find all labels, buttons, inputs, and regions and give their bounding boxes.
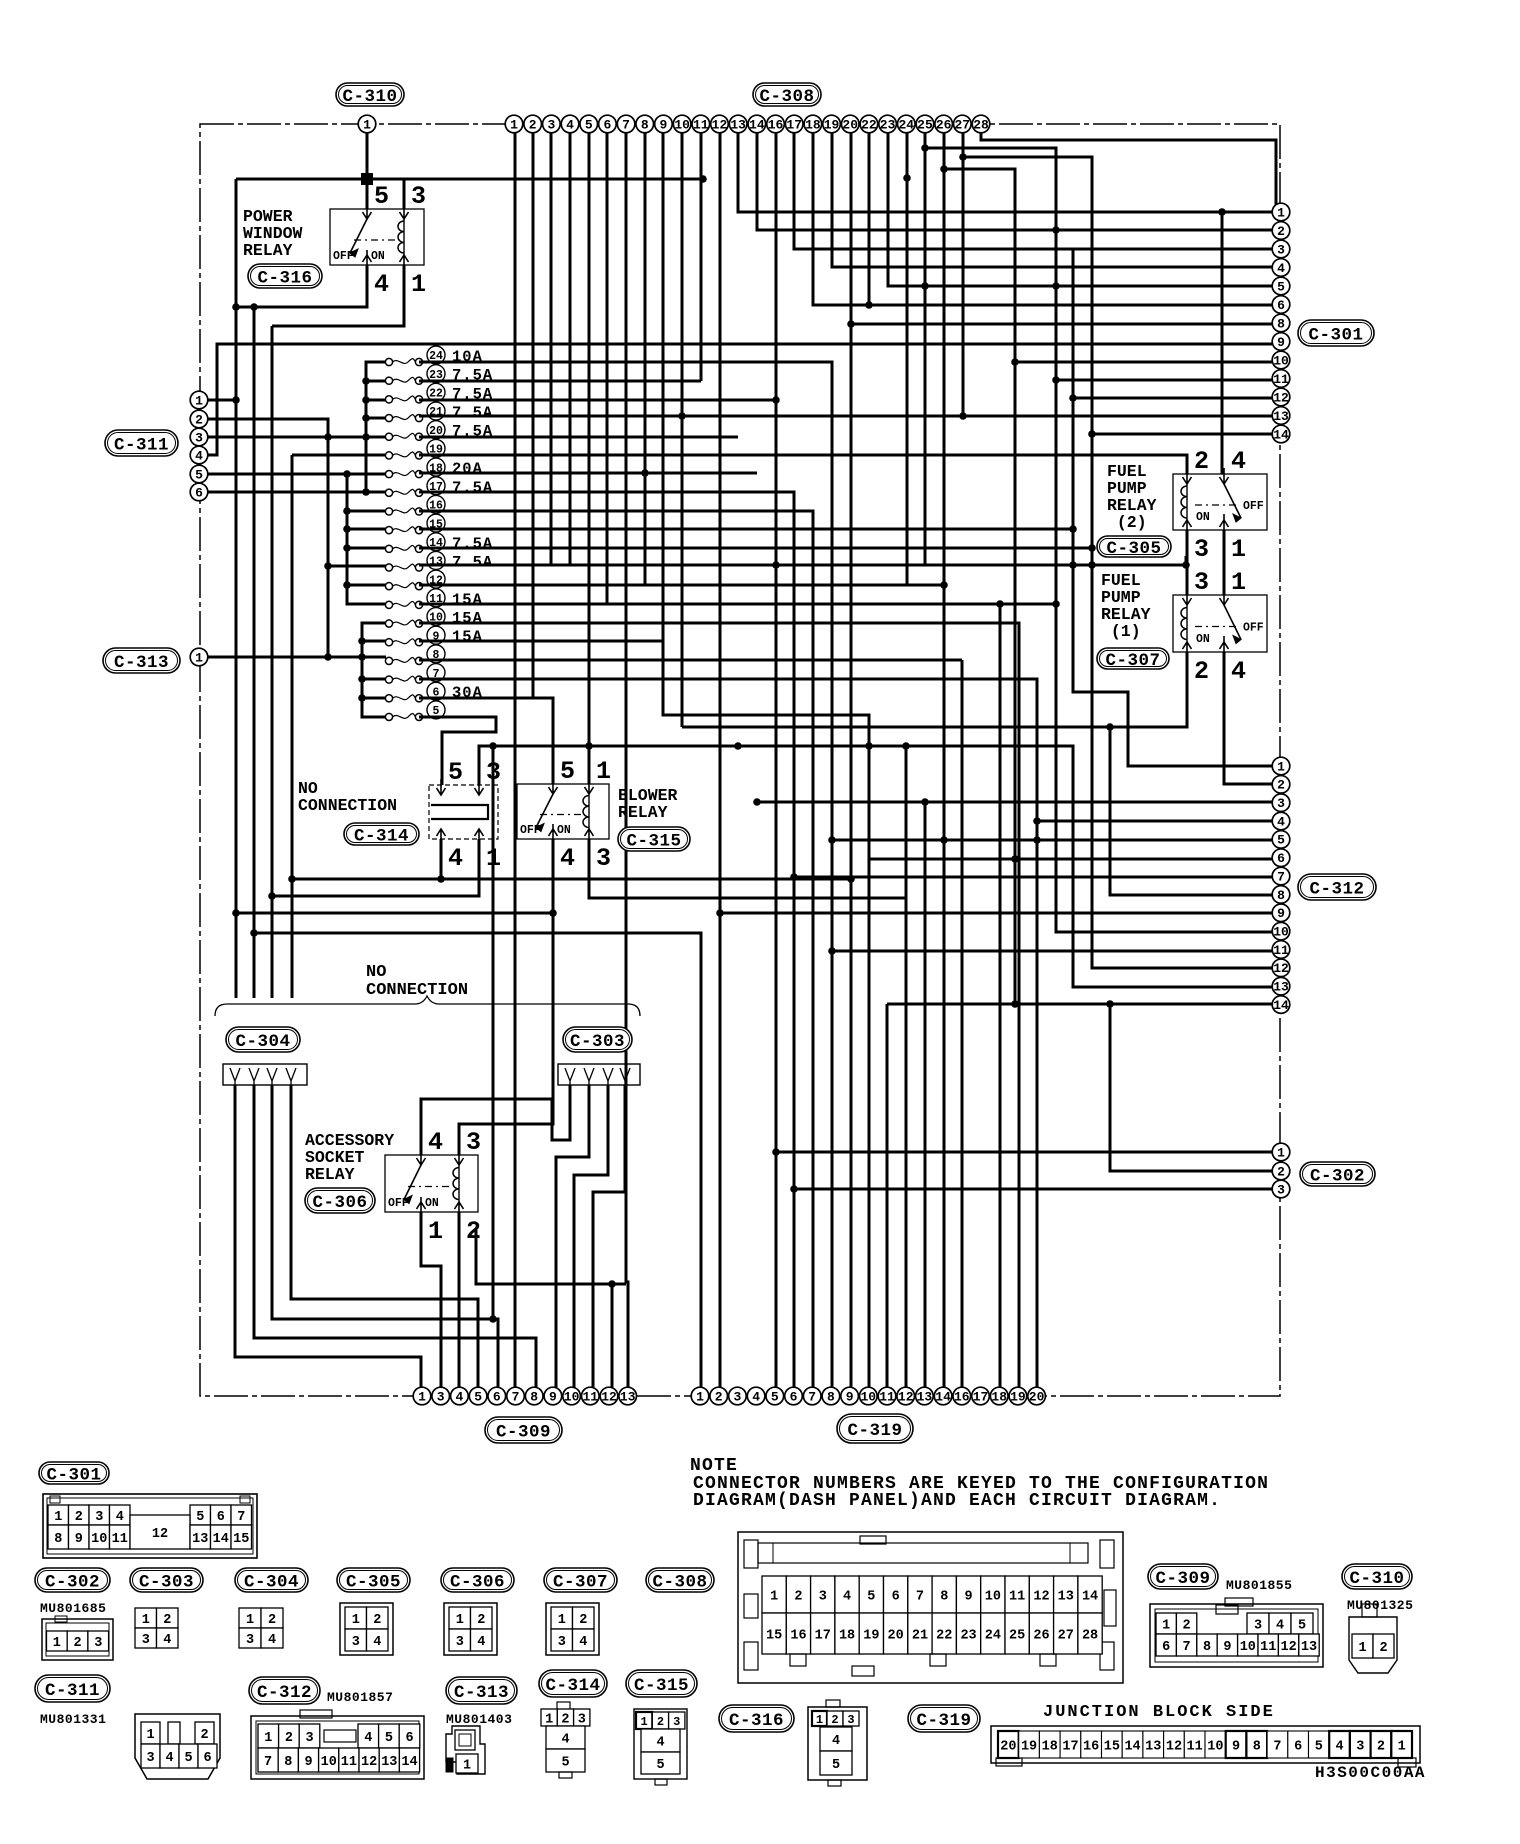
- connector C-307 pin table: [546, 1603, 599, 1655]
- svg-text:2: 2: [477, 1613, 485, 1628]
- svg-text:4: 4: [1231, 657, 1246, 686]
- svg-text:3: 3: [819, 1589, 827, 1604]
- svg-text:15: 15: [766, 1628, 782, 1643]
- wire bus2 stub: [347, 510, 386, 513]
- junction (869,746): [865, 742, 873, 750]
- wire fuse15 out: [419, 528, 1073, 531]
- wire fuse10 out to C-319 19: [419, 623, 1019, 1388]
- svg-text:10: 10: [860, 1389, 876, 1404]
- svg-text:7: 7: [1277, 869, 1285, 884]
- svg-text:12: 12: [1166, 1739, 1182, 1754]
- terminal C-308 top pin 27: [954, 115, 972, 133]
- svg-text:8: 8: [54, 1532, 62, 1547]
- wire bus D to C-319 1: [254, 933, 701, 1388]
- wire PW pin1 route: [272, 265, 404, 326]
- wire top12 to C-319 2: [719, 132, 722, 1388]
- fuse 12: [385, 570, 445, 590]
- svg-text:15A: 15A: [452, 628, 483, 646]
- svg-text:11: 11: [112, 1532, 128, 1547]
- svg-text:3: 3: [578, 1712, 586, 1727]
- svg-text:19: 19: [824, 117, 840, 132]
- svg-text:14: 14: [213, 1532, 229, 1547]
- terminal C-312 pin 3: [1272, 794, 1290, 812]
- terminal C-301 pin 2: [1272, 222, 1290, 240]
- wire C-312 14 line: [887, 1003, 1278, 1006]
- svg-text:23: 23: [880, 117, 896, 132]
- svg-text:14: 14: [1273, 427, 1289, 442]
- wire C-311 5 fuse18 feed: [199, 473, 386, 476]
- capsule C-304 table: [235, 1568, 308, 1592]
- junction (1110,727): [1106, 723, 1114, 731]
- svg-text:13: 13: [1058, 1589, 1074, 1604]
- wire top1 to C-309 7: [514, 132, 517, 1388]
- svg-text:11: 11: [1260, 1640, 1276, 1655]
- wire top5 to blower pin1: [588, 132, 591, 784]
- svg-text:1: 1: [411, 270, 426, 299]
- wire bus2 stub: [347, 584, 386, 587]
- svg-text:7: 7: [808, 1389, 816, 1404]
- terminal C-308 top pin 1: [505, 115, 523, 133]
- svg-text:2: 2: [75, 1510, 83, 1525]
- svg-text:1: 1: [510, 117, 518, 132]
- wire fuse16 out chain to C-319 7: [419, 511, 813, 1388]
- junction block side strip: [991, 1726, 1420, 1767]
- terminal C-319 pin 3: [729, 1387, 747, 1405]
- terminal C-319 pin 10: [860, 1387, 878, 1405]
- svg-text:4: 4: [1276, 1618, 1284, 1633]
- svg-text:C-314: C-314: [545, 1676, 600, 1696]
- svg-text:6: 6: [603, 117, 611, 132]
- svg-text:2: 2: [200, 1728, 208, 1743]
- terminal C-319 pin 9: [841, 1387, 859, 1405]
- wire top10: [681, 132, 684, 727]
- svg-text:3: 3: [195, 430, 203, 445]
- svg-text:1: 1: [456, 1613, 464, 1628]
- wire top27 deep vertical: [962, 157, 965, 416]
- svg-text:1: 1: [53, 1636, 61, 1651]
- wire C-311 6 fuse17 feed: [199, 491, 386, 494]
- svg-text:3: 3: [596, 844, 611, 873]
- fuse 9: [385, 626, 483, 646]
- wire C-305 pin4 feed: [1221, 211, 1224, 474]
- wire fuse13 feed: [328, 565, 386, 568]
- wire C-301 10: [1015, 361, 1278, 364]
- wire C-319 18 vertical: [1018, 623, 1021, 1388]
- wire fuse18 out: [419, 472, 757, 475]
- connector C-316 pin table: [808, 1700, 867, 1786]
- svg-text:15A: 15A: [452, 610, 483, 628]
- wire C-311 4 chain to C-301 9: [199, 344, 1278, 455]
- wire bus1 stub: [366, 436, 386, 439]
- junction (493,746): [489, 742, 497, 750]
- svg-text:C-313: C-313: [454, 1683, 509, 1703]
- capsule C-307 table: [544, 1568, 617, 1592]
- svg-text:5: 5: [1315, 1739, 1323, 1754]
- wire C-301 13 long fuse21: [419, 415, 1278, 418]
- svg-text:MU801685: MU801685: [40, 1601, 106, 1616]
- svg-text:C-302: C-302: [1310, 1166, 1365, 1186]
- svg-text:MU801855: MU801855: [1226, 1578, 1292, 1593]
- svg-text:9: 9: [964, 1589, 972, 1604]
- fuse 21: [385, 402, 493, 422]
- terminal C-319 pin 5: [766, 1387, 784, 1405]
- svg-text:11: 11: [879, 1389, 895, 1404]
- connector C-304 pin table: [239, 1608, 283, 1648]
- svg-text:C-302: C-302: [45, 1572, 100, 1592]
- terminal C-308 top pin 10: [673, 115, 691, 133]
- terminal C-308 top pin 2: [524, 115, 542, 133]
- junction (493,1319): [489, 1315, 497, 1323]
- terminal C-309 pin 5: [469, 1387, 487, 1405]
- wire C-314 pin3 feed line746 to C-312 13: [479, 746, 1278, 987]
- svg-text:12: 12: [1280, 1640, 1296, 1655]
- svg-text:5: 5: [585, 117, 593, 132]
- svg-text:9: 9: [660, 117, 668, 132]
- svg-text:2: 2: [1277, 778, 1285, 793]
- svg-text:3: 3: [95, 1510, 103, 1525]
- terminal C-301 pin 1: [1272, 203, 1290, 221]
- svg-text:14: 14: [1273, 998, 1289, 1013]
- svg-text:3: 3: [305, 1731, 313, 1746]
- svg-text:14: 14: [935, 1389, 951, 1404]
- junction (907,178): [903, 174, 911, 182]
- wire fuse9 out chain to C-319 10: [419, 641, 869, 1388]
- svg-text:13: 13: [192, 1532, 208, 1547]
- fuse 19: [385, 439, 445, 459]
- svg-text:2: 2: [579, 1613, 587, 1628]
- wire C-319 11 vertical: [886, 1004, 889, 1388]
- wire top4: [569, 132, 572, 565]
- svg-text:10: 10: [1273, 353, 1289, 368]
- svg-text:5: 5: [1277, 833, 1285, 848]
- svg-text:C-315: C-315: [626, 831, 681, 851]
- svg-text:C-301: C-301: [1308, 325, 1363, 345]
- terminal C-319 pin 2: [710, 1387, 728, 1405]
- svg-text:7.5A: 7.5A: [452, 479, 493, 497]
- svg-text:16: 16: [1083, 1739, 1099, 1754]
- svg-text:3: 3: [146, 1751, 154, 1766]
- wire C-311 2 chain: [199, 419, 328, 657]
- wire top9: [662, 132, 665, 641]
- terminal C-309 pin 3: [432, 1387, 450, 1405]
- svg-text:3: 3: [437, 1389, 445, 1404]
- terminal C-312 pin 8: [1272, 886, 1290, 904]
- svg-text:1: 1: [816, 1713, 823, 1727]
- svg-text:1: 1: [264, 1731, 272, 1746]
- svg-text:25: 25: [917, 117, 933, 132]
- connector C-309 pin table: [1150, 1598, 1323, 1667]
- svg-text:6: 6: [405, 1731, 413, 1746]
- svg-text:13: 13: [730, 117, 746, 132]
- svg-text:14: 14: [749, 117, 765, 132]
- junction (1056,604): [1052, 600, 1060, 608]
- svg-text:2: 2: [1277, 1164, 1285, 1179]
- wire bus3 stub: [362, 697, 386, 700]
- wire C-304 pin3 chain to C-309 6: [272, 1085, 498, 1388]
- capsule C-316: [248, 264, 322, 288]
- connector C-311 pin table: [135, 1714, 220, 1779]
- wire top11: [700, 132, 703, 381]
- terminal C-319 pin 20: [1028, 1387, 1046, 1405]
- svg-text:MU801325: MU801325: [1347, 1598, 1413, 1613]
- wire fuse8 out: [419, 659, 962, 662]
- connector C-306 pin table: [444, 1603, 497, 1655]
- wire fuse bus1: [366, 362, 386, 492]
- svg-text:2: 2: [794, 1589, 802, 1604]
- capsule C-319 table: [908, 1705, 980, 1732]
- junction (328,437): [324, 433, 332, 441]
- svg-text:C-314: C-314: [354, 826, 409, 846]
- wire v272 bundle: [271, 326, 274, 998]
- wire bus B to C-314 pin1: [272, 839, 479, 896]
- terminal C-319 pin 19: [1009, 1387, 1027, 1405]
- junction (366,492): [362, 488, 370, 496]
- svg-text:5: 5: [196, 1510, 204, 1525]
- wire C-309 13 line: [476, 1230, 626, 1284]
- svg-text:20: 20: [1000, 1739, 1016, 1754]
- terminal C-312 pin 14: [1272, 996, 1290, 1014]
- junction (1015,1004): [1011, 1000, 1019, 1008]
- svg-text:C-307: C-307: [1105, 651, 1160, 671]
- junction (553,913): [549, 909, 557, 917]
- capsule C-303 table: [130, 1568, 203, 1592]
- junction (236,307): [232, 303, 240, 311]
- junction (272,896): [268, 892, 276, 900]
- terminal C-311 pin 4: [190, 446, 208, 464]
- fuse 15: [385, 514, 445, 534]
- connector C-312 pin table: [251, 1710, 424, 1779]
- svg-text:C-304: C-304: [244, 1572, 299, 1592]
- svg-text:3: 3: [1277, 796, 1285, 811]
- svg-text:3: 3: [456, 1635, 464, 1650]
- svg-text:ON: ON: [371, 250, 385, 263]
- terminal C-312 pin 10: [1272, 922, 1290, 940]
- connector C-302 pin table: [42, 1616, 113, 1660]
- svg-text:13: 13: [429, 556, 443, 569]
- wire top13 to C-301 1: [738, 132, 1278, 212]
- wire C-319 16 vertical: [961, 660, 964, 1388]
- wire fuse12 out: [419, 584, 944, 587]
- wire v236 bundle: [235, 179, 238, 998]
- terminal C-312 pin 6: [1272, 849, 1290, 867]
- wire C-310 pin1 to relay pin5: [366, 132, 369, 209]
- junction (328,657): [324, 653, 332, 661]
- terminal C-319 pin 11: [878, 1387, 896, 1405]
- svg-text:1: 1: [1277, 1145, 1285, 1160]
- junction (1056,230): [1052, 226, 1060, 234]
- junction (851,324): [847, 320, 855, 328]
- terminal C-311 pin 6: [190, 483, 208, 501]
- svg-text:1: 1: [1277, 205, 1285, 220]
- svg-text:1: 1: [1162, 1618, 1170, 1633]
- svg-text:26: 26: [1033, 1628, 1049, 1643]
- junction (589,746): [585, 742, 593, 750]
- svg-text:8: 8: [827, 1389, 835, 1404]
- svg-text:C-312: C-312: [1309, 879, 1364, 899]
- svg-text:12: 12: [1273, 390, 1289, 405]
- capsule C-314: [344, 823, 419, 846]
- wire top7 to C-309 13: [626, 132, 628, 1388]
- svg-text:5: 5: [474, 1389, 482, 1404]
- terminal C-312 pin 5: [1272, 831, 1290, 849]
- terminal C-319 pin 8: [822, 1387, 840, 1405]
- wire C-312 4: [1037, 820, 1278, 823]
- relay C-314 no connection: [429, 758, 501, 873]
- junction (645,473): [641, 469, 649, 477]
- junction (1056,286): [1052, 282, 1060, 290]
- svg-text:16: 16: [768, 117, 784, 132]
- terminal C-311 pin 3: [190, 428, 208, 446]
- junction (612,1284): [608, 1280, 616, 1288]
- wire C-304 pin4 chain to C-309 5: [291, 1085, 478, 1388]
- svg-text:9: 9: [846, 1389, 854, 1404]
- junction (963,416): [959, 412, 967, 420]
- wire bus3 stub: [362, 640, 386, 643]
- svg-text:C-315: C-315: [634, 1676, 689, 1696]
- terminal C-311 pin 5: [190, 465, 208, 483]
- wire C-305 pin3 to C-307 pin3: [1186, 530, 1189, 595]
- svg-text:OFF: OFF: [520, 824, 541, 837]
- svg-text:5: 5: [771, 1389, 779, 1404]
- svg-text:2: 2: [831, 1713, 838, 1727]
- terminal C-308 top pin 9: [655, 115, 673, 133]
- terminal C-308 top pin 4: [561, 115, 579, 133]
- svg-text:1: 1: [195, 650, 203, 665]
- terminal C-308 top pin 8: [636, 115, 654, 133]
- capsule C-316 table: [719, 1705, 794, 1732]
- svg-text:14: 14: [401, 1755, 417, 1770]
- capsule C-314 table: [539, 1670, 607, 1697]
- capsule C-308 table: [646, 1568, 714, 1592]
- svg-text:2: 2: [285, 1731, 293, 1746]
- svg-text:C-307: C-307: [553, 1572, 608, 1592]
- wire fuse22 out: [419, 399, 776, 402]
- wire blower pin3 chain to C-319 12: [589, 839, 906, 1388]
- wire top24: [906, 132, 909, 585]
- svg-text:C-308: C-308: [652, 1572, 707, 1592]
- svg-text:C-316: C-316: [257, 268, 312, 288]
- junction bus2: [343, 544, 351, 552]
- terminal C-319 pin 12: [897, 1387, 915, 1405]
- terminal C-309 pin 10: [563, 1387, 581, 1405]
- svg-text:ON: ON: [1196, 633, 1210, 646]
- svg-text:3: 3: [733, 1389, 741, 1404]
- svg-text:4: 4: [455, 1389, 463, 1404]
- svg-text:3: 3: [411, 182, 426, 211]
- junction bus2: [343, 581, 351, 589]
- svg-text:6: 6: [195, 485, 203, 500]
- svg-text:DIAGRAM(DASH PANEL)AND EACH CI: DIAGRAM(DASH PANEL)AND EACH CIRCUIT DIAG…: [693, 1491, 1221, 1511]
- terminal C-308 top pin 16: [767, 115, 785, 133]
- wire fuse14 out: [419, 547, 1092, 550]
- junction (328,566): [324, 562, 332, 570]
- svg-text:OFF: OFF: [333, 250, 354, 263]
- wire fuse bus3: [362, 623, 386, 717]
- svg-text:1: 1: [696, 1389, 704, 1404]
- brace no-connection: [215, 996, 640, 1016]
- capsule C-312: [1298, 874, 1376, 900]
- svg-text:4: 4: [832, 1734, 840, 1749]
- junction (776,400): [772, 396, 780, 404]
- svg-text:14: 14: [1082, 1589, 1098, 1604]
- capsule C-301 table: [39, 1462, 109, 1485]
- svg-text:10: 10: [674, 117, 690, 132]
- junction (347,474): [343, 470, 351, 478]
- fuse 16: [385, 495, 445, 515]
- wire C-312 3: [757, 801, 1278, 804]
- svg-text:20A: 20A: [452, 460, 483, 478]
- svg-text:C-316: C-316: [729, 1711, 784, 1731]
- svg-text:15: 15: [1104, 1739, 1120, 1754]
- svg-text:7.5A: 7.5A: [452, 535, 493, 553]
- wire bus3 stub: [362, 678, 386, 681]
- terminal C-309 pin 11: [582, 1387, 600, 1405]
- fuse 13: [385, 551, 493, 571]
- capsule C-309 table: [1148, 1564, 1218, 1589]
- svg-text:1: 1: [352, 1613, 360, 1628]
- wire C-312 8 chain: [1110, 727, 1278, 895]
- wire C-319 14 vertical: [943, 585, 946, 1388]
- svg-text:12: 12: [1033, 1589, 1049, 1604]
- svg-text:5: 5: [448, 758, 463, 787]
- svg-text:15: 15: [233, 1532, 249, 1547]
- svg-text:1: 1: [1358, 1641, 1366, 1656]
- terminal C-302 pin 3: [1272, 1180, 1290, 1198]
- svg-text:8: 8: [1277, 316, 1285, 331]
- svg-text:7: 7: [1183, 1640, 1191, 1655]
- svg-text:1: 1: [428, 1217, 443, 1246]
- svg-text:20: 20: [842, 117, 858, 132]
- capsule C-315: [618, 827, 690, 851]
- svg-text:9: 9: [1223, 1640, 1231, 1655]
- wire C-312 6: [869, 858, 1278, 861]
- capsule C-310: [336, 83, 404, 107]
- wire fuse bus2: [347, 474, 386, 604]
- junction (776,565): [772, 561, 780, 569]
- terminal C-301 pin 14: [1272, 425, 1290, 443]
- wire top22: [868, 132, 871, 305]
- junction (1015,859): [1011, 855, 1019, 863]
- junction (925,802): [921, 798, 929, 806]
- svg-text:3: 3: [1356, 1739, 1364, 1754]
- junction (1073,565): [1069, 561, 1077, 569]
- svg-text:H3S00C00AA: H3S00C00AA: [1315, 1764, 1426, 1782]
- svg-text:4: 4: [560, 844, 575, 873]
- svg-text:2: 2: [1379, 1641, 1387, 1656]
- terminal C-319 pin 6: [785, 1387, 803, 1405]
- junction (925,148): [921, 144, 929, 152]
- fuse 11: [385, 589, 483, 609]
- junction (1056,380): [1052, 376, 1060, 384]
- wire fuse7 out chain to C-319 20: [419, 679, 1037, 1388]
- svg-text:6: 6: [1162, 1640, 1170, 1655]
- terminal C-308 top pin 25: [916, 115, 934, 133]
- capsule C-303 schematic: [563, 1027, 632, 1052]
- svg-text:3: 3: [558, 1635, 566, 1650]
- svg-text:13: 13: [381, 1755, 397, 1770]
- svg-text:C-312: C-312: [257, 1683, 312, 1703]
- terminal C-319 pin 1: [691, 1387, 709, 1405]
- schematic border box: [200, 124, 1280, 1396]
- wire PW pin4 route: [236, 265, 367, 307]
- svg-text:11: 11: [582, 1389, 598, 1404]
- wire v493: [492, 746, 495, 1319]
- wire C-303 pin1 to C-306 pin4: [421, 1085, 570, 1155]
- junction bus1: [362, 414, 370, 422]
- terminal C-308 top pin 22: [860, 115, 878, 133]
- terminal C-308 top pin 26: [935, 115, 953, 133]
- relay U-C307 fuel pump 1: [1173, 568, 1267, 686]
